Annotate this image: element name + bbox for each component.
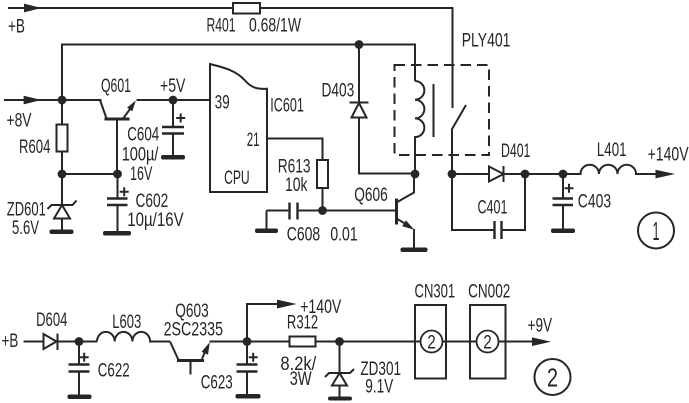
transistor Q606 <box>397 174 415 248</box>
capacitor C608 <box>267 203 323 229</box>
svg-text:L401: L401 <box>597 140 627 161</box>
wire +B to D604 <box>24 341 44 343</box>
wire +8V rail <box>4 99 102 101</box>
svg-text:+5V: +5V <box>160 76 186 97</box>
svg-text:C602: C602 <box>136 191 169 212</box>
connector CN002 circled 2 <box>477 331 499 353</box>
connector CN301 box <box>415 305 446 379</box>
svg-text:R401: R401 <box>207 16 236 37</box>
diode D604 <box>44 334 98 351</box>
arrow +8V <box>24 96 42 105</box>
wire IC pin 21 to R613 <box>267 139 323 161</box>
svg-text:C401: C401 <box>478 198 508 219</box>
zener ZD301 <box>325 342 354 397</box>
resistor R312 <box>290 337 316 347</box>
ground C622 <box>68 395 92 400</box>
zener ZD601 <box>48 174 77 230</box>
ground Q606 <box>401 248 428 253</box>
svg-text:+B: +B <box>2 331 19 352</box>
ground ZD301 <box>328 397 352 401</box>
wire switch to D401 <box>452 173 489 175</box>
circle 2 <box>535 359 571 395</box>
capacitor C602 <box>107 174 129 231</box>
capacitor C622 <box>69 342 90 395</box>
diode D401 <box>489 166 563 182</box>
wire base to Q606 <box>323 210 396 212</box>
svg-text:PLY401: PLY401 <box>462 31 511 52</box>
svg-text:D401: D401 <box>501 141 530 162</box>
svg-text:+8V: +8V <box>7 110 32 131</box>
node relay coil bottom <box>411 170 420 179</box>
relay core <box>433 84 435 137</box>
svg-text:CPU: CPU <box>224 168 250 189</box>
relay coil <box>415 81 424 174</box>
svg-text:2: 2 <box>427 333 436 354</box>
capacitor C623 <box>237 342 258 395</box>
ground C604 <box>161 155 185 160</box>
wire R312 to CN301 and through connectors <box>316 341 533 343</box>
svg-text:C608: C608 <box>287 225 320 246</box>
node ZD301 top <box>335 337 344 346</box>
svg-text:0.01: 0.01 <box>330 225 357 246</box>
node C622 top <box>75 337 84 346</box>
ground C602 <box>103 231 131 236</box>
arrow +140V bottom <box>277 300 297 309</box>
svg-text:2: 2 <box>547 363 558 393</box>
svg-text:Q601: Q601 <box>101 76 131 97</box>
node +8V <box>58 96 67 105</box>
inductor L603 <box>97 332 170 342</box>
wire +B top rail to relay switch contact <box>8 8 453 108</box>
connector CN002 box <box>470 305 506 379</box>
svg-text:0.68/1W: 0.68/1W <box>249 16 301 37</box>
connector CN301 circled 2 <box>421 331 443 353</box>
svg-text:16V: 16V <box>130 164 153 185</box>
svg-text:+140V: +140V <box>648 144 689 165</box>
node C602 top <box>113 170 122 179</box>
IC601 CPU box <box>210 64 267 192</box>
relay PLY401 dashed box <box>395 65 490 155</box>
circle 1 <box>638 213 674 249</box>
node zener top <box>58 170 67 179</box>
node C623 top <box>243 337 252 346</box>
transistor Q603 <box>170 342 247 375</box>
arrow +140V top <box>656 170 676 179</box>
wire rail to R312 <box>247 341 290 343</box>
node D403 tap <box>355 40 364 49</box>
svg-text:1: 1 <box>653 216 660 246</box>
ground C608 <box>255 229 278 234</box>
svg-text:D604: D604 <box>36 310 68 331</box>
svg-text:C604: C604 <box>127 124 159 145</box>
wire base junction row <box>62 173 118 175</box>
arrow +9V <box>532 337 551 346</box>
svg-text:CN002: CN002 <box>468 281 510 302</box>
svg-text:C403: C403 <box>578 191 611 212</box>
wire +140V branch <box>247 304 278 342</box>
inductor L401 <box>563 165 657 174</box>
svg-text:L603: L603 <box>112 312 141 333</box>
svg-text:2: 2 <box>483 333 492 354</box>
wire +5V to IC601 pin 39 <box>173 99 210 101</box>
svg-text:D403: D403 <box>322 81 355 102</box>
ground C403 <box>551 229 575 234</box>
resistor R604 <box>57 100 68 174</box>
node C403 top <box>559 170 568 179</box>
svg-text:100µ/: 100µ/ <box>122 145 159 166</box>
resistor R613 <box>317 160 328 211</box>
diode D403 <box>350 45 416 174</box>
svg-text:+140V: +140V <box>300 297 341 318</box>
svg-text:CN301: CN301 <box>415 281 456 302</box>
svg-text:21: 21 <box>247 130 260 151</box>
svg-text:9.1V: 9.1V <box>365 377 393 398</box>
resistor R401 <box>233 3 260 14</box>
ground ZD601 <box>50 230 74 235</box>
arrow +B top rail <box>24 4 42 13</box>
node D401 output <box>521 170 530 179</box>
transistor Q601 <box>100 100 173 174</box>
svg-text:Q606: Q606 <box>354 185 387 206</box>
svg-text:+B: +B <box>8 16 25 37</box>
svg-text:3W: 3W <box>290 369 312 390</box>
svg-text:10µ/16V: 10µ/16V <box>127 210 184 231</box>
svg-text:5.6V: 5.6V <box>12 218 39 239</box>
wire second rail from +8V node into relay coil <box>62 45 415 101</box>
svg-text:C622: C622 <box>98 360 130 381</box>
svg-text:IC601: IC601 <box>270 96 304 117</box>
relay switch blade <box>452 105 467 174</box>
svg-text:R604: R604 <box>19 137 51 158</box>
node +5V <box>169 96 178 105</box>
svg-text:+9V: +9V <box>528 316 553 337</box>
svg-text:10k: 10k <box>285 175 308 196</box>
svg-text:C623: C623 <box>201 372 233 393</box>
capacitor C604 <box>162 100 185 155</box>
capacitor C403 <box>553 174 574 229</box>
capacitor C401 loop <box>452 174 525 239</box>
svg-text:2SC2335: 2SC2335 <box>164 320 223 341</box>
node switch output <box>448 170 457 179</box>
svg-text:39: 39 <box>215 93 230 114</box>
ground C623 <box>236 394 261 399</box>
node Q606 base <box>318 206 327 215</box>
